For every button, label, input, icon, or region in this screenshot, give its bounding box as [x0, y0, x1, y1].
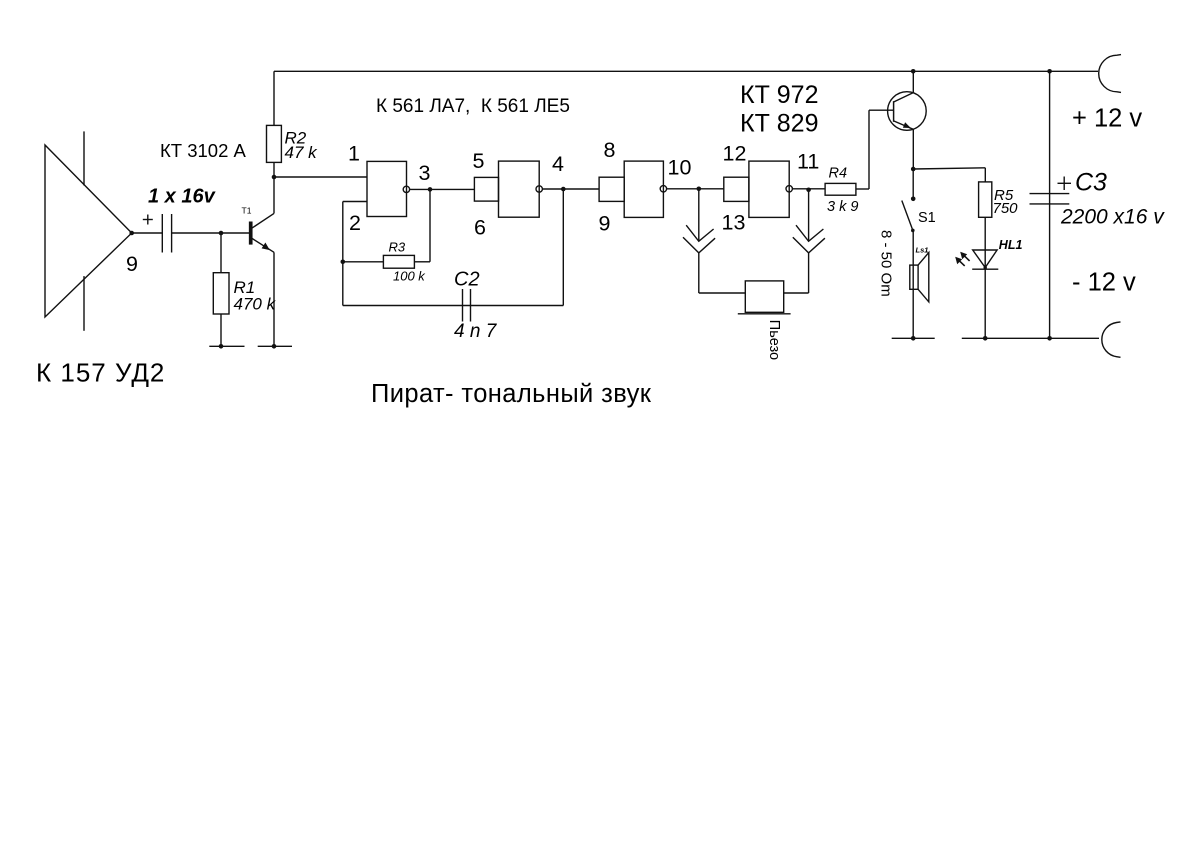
- svg-text:8: 8: [604, 138, 616, 162]
- svg-text:1: 1: [348, 142, 360, 166]
- svg-text:47 k: 47 k: [285, 143, 319, 162]
- svg-text:470 k: 470 k: [234, 295, 277, 314]
- svg-text:S1: S1: [918, 210, 936, 226]
- svg-text:4: 4: [552, 152, 564, 176]
- svg-text:750: 750: [993, 200, 1019, 217]
- svg-text:3: 3: [419, 161, 431, 185]
- svg-text:13: 13: [722, 211, 746, 235]
- svg-text:3 k 9: 3 k 9: [827, 199, 858, 215]
- svg-text:- 12 v: - 12 v: [1072, 269, 1136, 297]
- svg-text:C2: C2: [454, 269, 480, 291]
- svg-text:C3: C3: [1075, 169, 1107, 197]
- svg-text:12: 12: [723, 142, 747, 166]
- svg-text:R3: R3: [389, 240, 406, 255]
- svg-text:10: 10: [668, 156, 692, 180]
- svg-text:К 157 УД2: К 157 УД2: [36, 358, 165, 388]
- svg-text:9: 9: [599, 212, 611, 236]
- svg-text:4 n 7: 4 n 7: [454, 321, 498, 342]
- svg-text:К 561 ЛА7, К 561 ЛЕ5: К 561 ЛА7, К 561 ЛЕ5: [376, 96, 570, 117]
- svg-text:Пьезо: Пьезо: [766, 320, 782, 360]
- svg-text:R4: R4: [829, 166, 848, 182]
- svg-text:2: 2: [349, 211, 361, 235]
- svg-text:Пират- тональный звук: Пират- тональный звук: [371, 380, 652, 408]
- svg-text:+ 12 v: + 12 v: [1072, 105, 1142, 133]
- svg-text:T1: T1: [242, 206, 252, 216]
- svg-text:6: 6: [474, 216, 486, 240]
- svg-text:КТ 829: КТ 829: [740, 109, 819, 137]
- svg-text:2200 x16 v: 2200 x16 v: [1060, 206, 1165, 229]
- svg-text:5: 5: [473, 149, 485, 173]
- svg-text:100 k: 100 k: [393, 269, 426, 284]
- svg-text:1 x 16v: 1 x 16v: [148, 186, 217, 208]
- svg-text:8 - 50 Оm: 8 - 50 Оm: [878, 230, 895, 297]
- svg-text:КТ 3102 А: КТ 3102 А: [160, 140, 247, 161]
- svg-text:11: 11: [797, 150, 819, 174]
- svg-text:9: 9: [126, 252, 138, 276]
- svg-text:Ls1: Ls1: [916, 245, 929, 254]
- svg-text:HL1: HL1: [999, 238, 1023, 252]
- svg-text:КТ 972: КТ 972: [740, 81, 819, 109]
